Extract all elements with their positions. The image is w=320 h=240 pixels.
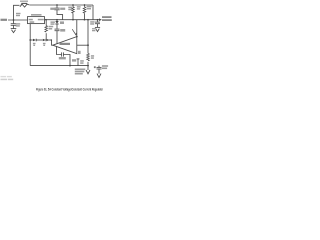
svg-text:Figure 61. 5A Constant Voltage: Figure 61. 5A Constant Voltage/Constant … [36,88,103,92]
node [69,65,71,67]
wire bottom rail [30,65,88,67]
wire op-amp input [77,44,88,46]
node [46,39,48,41]
label U2 [60,43,71,45]
wire adj rail [30,39,33,41]
resistor R4 divider [87,53,90,65]
labels near stub [72,59,76,61]
text smudges [1,1,112,75]
label C1 value [16,23,21,24]
transistor Q1 [20,3,30,7]
diode D2 [33,39,43,42]
ground output cap [95,27,100,31]
capacitor C4 compensation [57,46,71,65]
label VOUT [102,16,112,18]
node A [13,19,15,21]
label U1 [31,14,42,16]
node dots top rail [56,4,58,6]
resistor R2 [83,5,86,20]
wire V+ [76,20,78,37]
wire divider [87,20,89,54]
plus C5 [94,66,96,68]
label block left of ground [75,69,86,71]
label R2 [87,6,92,8]
ground divider [86,66,90,74]
pin 7 mark [72,29,76,35]
label C6 [90,21,94,23]
label R4 [91,55,94,57]
test stub [77,59,79,66]
resistor R1 [72,5,75,20]
node ADJ rail [29,39,31,41]
op-amp U2 [53,37,77,54]
label D2 D3 [33,43,36,44]
footnotes [1,76,14,80]
label C3 [60,29,65,32]
label C1 top [16,13,21,14]
label D1 [51,21,55,23]
wire [92,5,94,20]
wire [8,19,28,21]
node out arrow [99,18,102,21]
label VIN [1,19,8,21]
label R1 [68,7,72,9]
label R3 [49,26,54,28]
ground input [11,29,17,33]
capacitor C3 [55,29,60,44]
label C4 [59,57,66,59]
node [87,44,89,46]
wire output rail [45,19,100,21]
IC U1 regulator [28,17,45,24]
node dots output rail [45,19,47,21]
wire [14,5,20,20]
label near output gnd [92,28,96,29]
wire top rail [30,4,93,6]
capacitor C5 adj [97,66,102,74]
wire ADJ [29,24,31,66]
label Q1 [20,1,28,2]
resistor R3 [45,20,48,40]
ground C5 [97,74,101,78]
pin labels U1 [29,19,33,21]
capacitor C6 output [95,20,100,28]
capacitor C2 [54,5,62,20]
label C2 [50,8,55,10]
diode D3 [43,39,52,42]
node [76,36,78,38]
diode D1 [55,20,58,29]
label C5 [102,65,108,67]
capacitor C1 input [11,20,17,29]
pin 4 [78,51,81,54]
wire to op-amp output [52,40,53,45]
